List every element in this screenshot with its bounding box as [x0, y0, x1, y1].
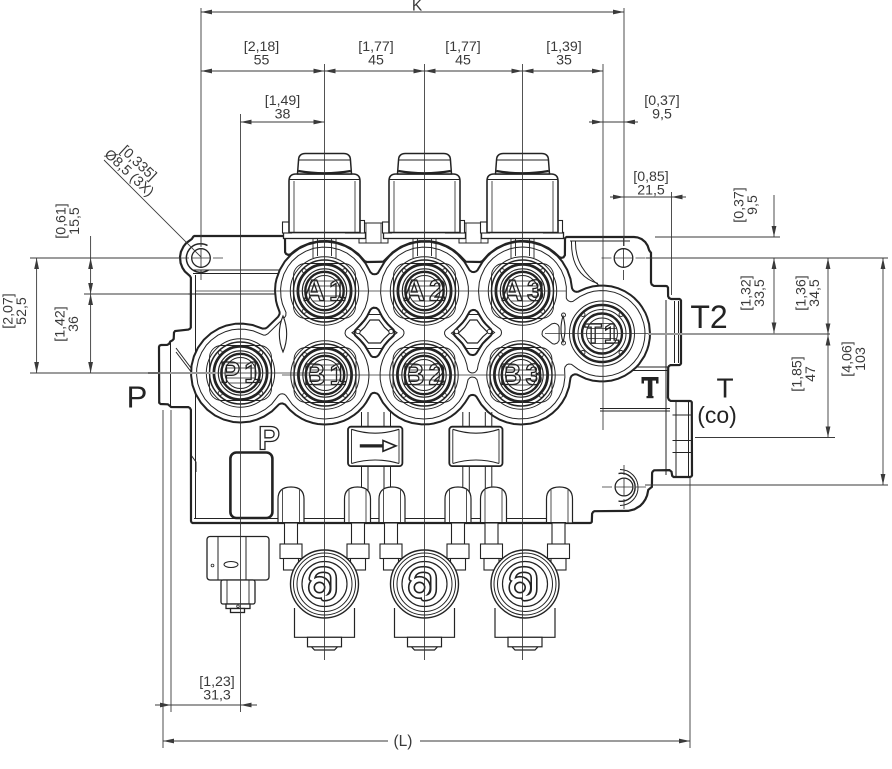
dim text 103	[840, 341, 870, 377]
svg-text:9,5: 9,5	[652, 107, 672, 123]
svg-text:K: K	[412, 0, 423, 15]
svg-text:(L): (L)	[394, 733, 413, 750]
svg-text:45: 45	[368, 53, 384, 69]
body bottom edge redraw	[192, 522, 566, 524]
svg-text:31,3: 31,3	[203, 688, 231, 704]
knob with logo at x=525	[491, 550, 559, 618]
chained dims 55/45/45/35	[201, 70, 603, 72]
svg-text:T2: T2	[690, 299, 727, 335]
hole callout text	[101, 136, 166, 200]
svg-text:38: 38	[275, 107, 291, 123]
knob with logo at x=324.5	[291, 550, 359, 618]
svg-text:9,5: 9,5	[745, 195, 761, 215]
dim 36	[90, 294, 92, 373]
co plug ridges	[673, 402, 692, 476]
TL ear hole	[186, 244, 210, 273]
port B2	[390, 341, 458, 409]
face diamond voids	[359, 320, 391, 343]
spool bores under caps	[313, 239, 534, 258]
relief cover plate	[230, 453, 272, 519]
P gray line	[148, 372, 216, 374]
web outlines around voids	[352, 315, 397, 349]
solenoid cap at x=424.5	[383, 154, 466, 239]
raised port face inner contour	[380, 247, 645, 419]
svg-text:55: 55	[254, 53, 270, 69]
svg-text:T: T	[716, 373, 733, 404]
port T1	[570, 301, 635, 366]
T2 gray line	[648, 333, 830, 335]
dim (L)	[163, 740, 388, 742]
blank box section 2	[449, 427, 502, 466]
svg-text:103: 103	[853, 347, 869, 371]
svg-text:P: P	[258, 420, 280, 457]
port P1	[206, 339, 274, 407]
T mark on body	[642, 377, 659, 398]
dim 9,5 right	[773, 195, 775, 237]
dim text 47	[790, 356, 820, 392]
valve body silhouette	[159, 236, 692, 523]
body inner edge lines	[171, 241, 671, 519]
arrow glyph	[360, 441, 396, 452]
dim 103	[882, 258, 884, 485]
collar blocks between caps	[359, 223, 488, 243]
dim 52,5	[36, 258, 38, 373]
dim 33,5	[773, 258, 775, 334]
dim text 34,5	[794, 275, 824, 311]
dim 9,5 top right	[589, 121, 638, 123]
dim 47	[827, 335, 829, 438]
face lens void left	[279, 316, 286, 352]
TR ear hole	[614, 249, 633, 268]
svg-text:P: P	[127, 380, 148, 415]
relief valve adjuster	[207, 537, 269, 613]
void vertex dots	[356, 329, 360, 333]
dim text 15,5	[54, 203, 84, 239]
stems below and above boxes	[362, 412, 492, 522]
svg-text:35: 35	[556, 53, 572, 69]
dim text 52,5	[1, 293, 31, 329]
port B3	[487, 341, 555, 409]
K dimension line	[201, 11, 624, 13]
dim 21,5	[610, 196, 686, 198]
svg-text:34,5: 34,5	[807, 279, 823, 307]
dim text 9,5 right	[732, 187, 762, 223]
svg-text:15,5: 15,5	[67, 207, 83, 235]
svg-text:(co): (co)	[697, 402, 737, 428]
raised port face outer contour	[191, 242, 650, 425]
dim 15,5	[90, 236, 92, 294]
centerlines	[179, 64, 650, 712]
svg-text:47: 47	[803, 366, 819, 382]
dim 31,3	[155, 704, 257, 706]
stems to knobs	[280, 523, 570, 570]
knob with logo at x=424.5	[391, 550, 459, 618]
leader for hole callout	[104, 160, 201, 257]
port A1	[290, 257, 358, 325]
T2 stub inner lines	[675, 301, 679, 363]
dim text 36	[53, 306, 83, 342]
dim 34,5	[827, 258, 829, 335]
dim text 33,5	[739, 275, 769, 311]
solenoid cap at x=522.5	[481, 154, 564, 239]
solenoid cap at x=324.5	[283, 154, 366, 239]
svg-text:45: 45	[455, 53, 471, 69]
dim 38	[241, 121, 325, 123]
port A2	[390, 257, 458, 325]
port A3	[488, 257, 556, 325]
arrow box (check valve symbol)	[348, 427, 402, 466]
svg-text:52,5: 52,5	[14, 297, 30, 325]
check valve domes under body	[278, 487, 573, 523]
svg-text:33,5: 33,5	[752, 279, 768, 307]
port B1	[291, 341, 359, 409]
face lens void right	[561, 316, 565, 342]
bottom-right ear detail	[615, 470, 638, 506]
svg-text:21,5: 21,5	[637, 183, 665, 199]
svg-text:36: 36	[66, 316, 82, 332]
